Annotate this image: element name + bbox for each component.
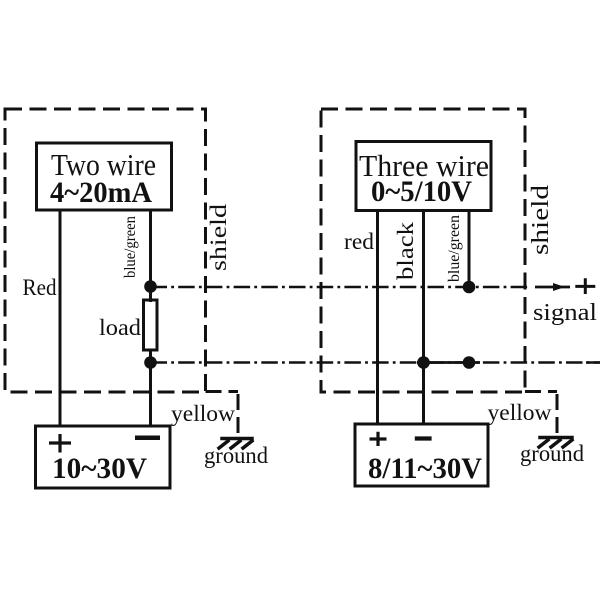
junction dot black line2 (417, 356, 430, 369)
ground symbol left (219, 439, 252, 449)
plus sign signal (575, 278, 595, 294)
minus terminal left supply (135, 435, 160, 440)
svg-text:red: red (344, 229, 375, 254)
junction dot right line2 (463, 356, 476, 369)
svg-text:black: black (393, 221, 418, 280)
junction dot left line1 (144, 280, 157, 293)
wire blue/green right (signal lead) (468, 211, 471, 289)
svg-text:blue/green: blue/green (446, 215, 463, 282)
yellow drain wire right (dashed) (525, 392, 557, 437)
svg-text:blue/green: blue/green (122, 216, 139, 278)
wire black (supply - lead) (422, 211, 425, 425)
wire Red (left transmitter + lead) (59, 210, 62, 427)
svg-text:8/11~30V: 8/11~30V (368, 452, 482, 485)
junction dot blue/green line1 (463, 281, 476, 294)
svg-text:ground: ground (204, 443, 268, 468)
yellow drain wire left (dashed) (206, 392, 239, 438)
shield box left (dashed) (5, 109, 206, 392)
resistor load (144, 300, 158, 350)
wire blue/green left (transmitter - lead) (149, 210, 152, 302)
power supply right 8/11~30V (355, 424, 488, 486)
shield box right (dashed) (321, 109, 525, 392)
signal line - (dash-dot) (151, 361, 600, 364)
svg-text:Red: Red (23, 275, 57, 300)
svg-text:shield: shield (206, 203, 231, 271)
svg-text:10~30V: 10~30V (52, 452, 147, 485)
transmitter box U2 Three wire (356, 142, 491, 211)
ground symbol right (539, 438, 572, 448)
wire load bottom to supply (149, 350, 152, 427)
svg-text:signal: signal (533, 300, 597, 326)
signal line + (dash-dot) (151, 286, 531, 289)
wire last dash of - signal line (586, 361, 600, 364)
svg-text:0~5/10V: 0~5/10V (371, 175, 472, 208)
power supply left 10~30V (36, 426, 171, 488)
minus terminal right supply (415, 436, 432, 440)
svg-text:yellow: yellow (171, 401, 235, 426)
plus terminal left supply (49, 434, 71, 453)
arrowhead on + signal line (553, 283, 565, 291)
junction dot left line2 (144, 356, 157, 369)
wire solid segment between line2 junctions (417, 361, 480, 364)
transmitter box U1 Two wire (37, 143, 172, 210)
svg-text:4~20mA: 4~20mA (50, 176, 152, 209)
arrow lead on + signal line (535, 286, 570, 289)
plus terminal right supply (370, 432, 387, 446)
wire red right (supply + lead) (376, 211, 379, 425)
svg-text:shield: shield (528, 185, 554, 255)
svg-text:ground: ground (520, 441, 584, 466)
svg-text:load: load (99, 315, 142, 340)
svg-text:yellow: yellow (488, 400, 552, 425)
